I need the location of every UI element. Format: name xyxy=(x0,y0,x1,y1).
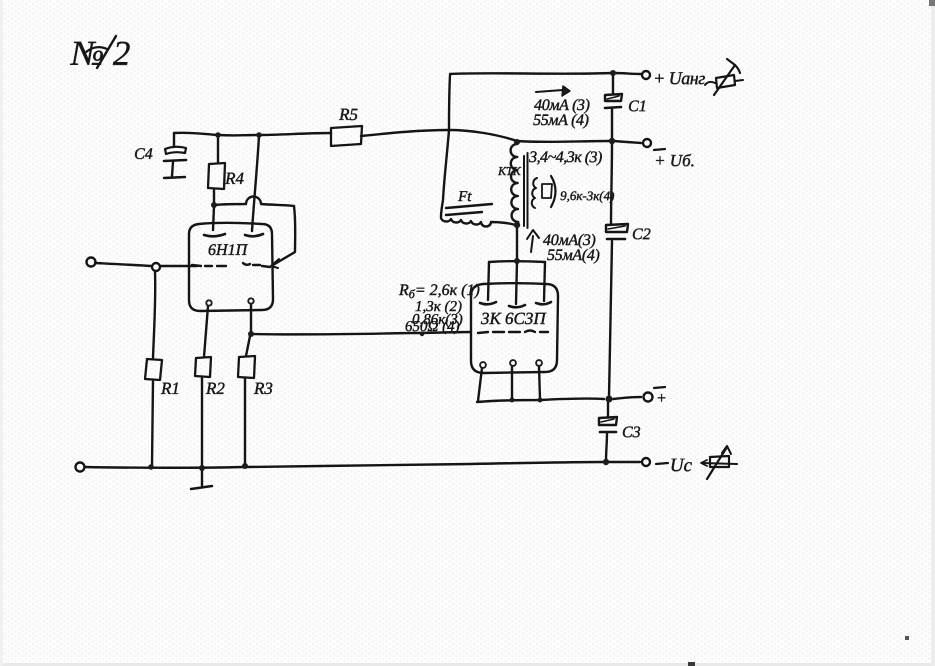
svg-text:+ Uб.: + Uб. xyxy=(654,151,695,170)
svg-text:R5: R5 xyxy=(338,105,358,124)
svg-text:6Н1П: 6Н1П xyxy=(208,242,249,259)
svg-text:55мА(4): 55мА(4) xyxy=(547,247,600,264)
svg-text:C1: C1 xyxy=(628,98,647,115)
svg-text:3К 6С3П: 3К 6С3П xyxy=(480,309,547,328)
svg-text:Ft: Ft xyxy=(457,189,472,205)
svg-text:R3: R3 xyxy=(253,379,273,398)
svg-text:650Ω (4): 650Ω (4) xyxy=(405,319,460,335)
svg-text:R1: R1 xyxy=(160,379,180,398)
svg-text:КТК: КТК xyxy=(497,164,522,178)
svg-text:Uс: Uс xyxy=(670,455,693,476)
svg-text:C4: C4 xyxy=(134,146,153,163)
svg-text:№ 2: № 2 xyxy=(69,34,130,73)
svg-text:3,4~4,3к (3): 3,4~4,3к (3) xyxy=(528,149,602,166)
svg-text:9,6к-3к(4): 9,6к-3к(4) xyxy=(560,188,614,203)
svg-text:+ Uанг: + Uанг xyxy=(653,68,705,88)
svg-text:R4: R4 xyxy=(224,169,244,188)
svg-text:R2: R2 xyxy=(205,379,225,398)
svg-text:55мА (4): 55мА (4) xyxy=(533,112,589,129)
svg-text:+: + xyxy=(656,390,667,407)
svg-text:C3: C3 xyxy=(622,424,641,441)
svg-text:C2: C2 xyxy=(632,226,651,243)
